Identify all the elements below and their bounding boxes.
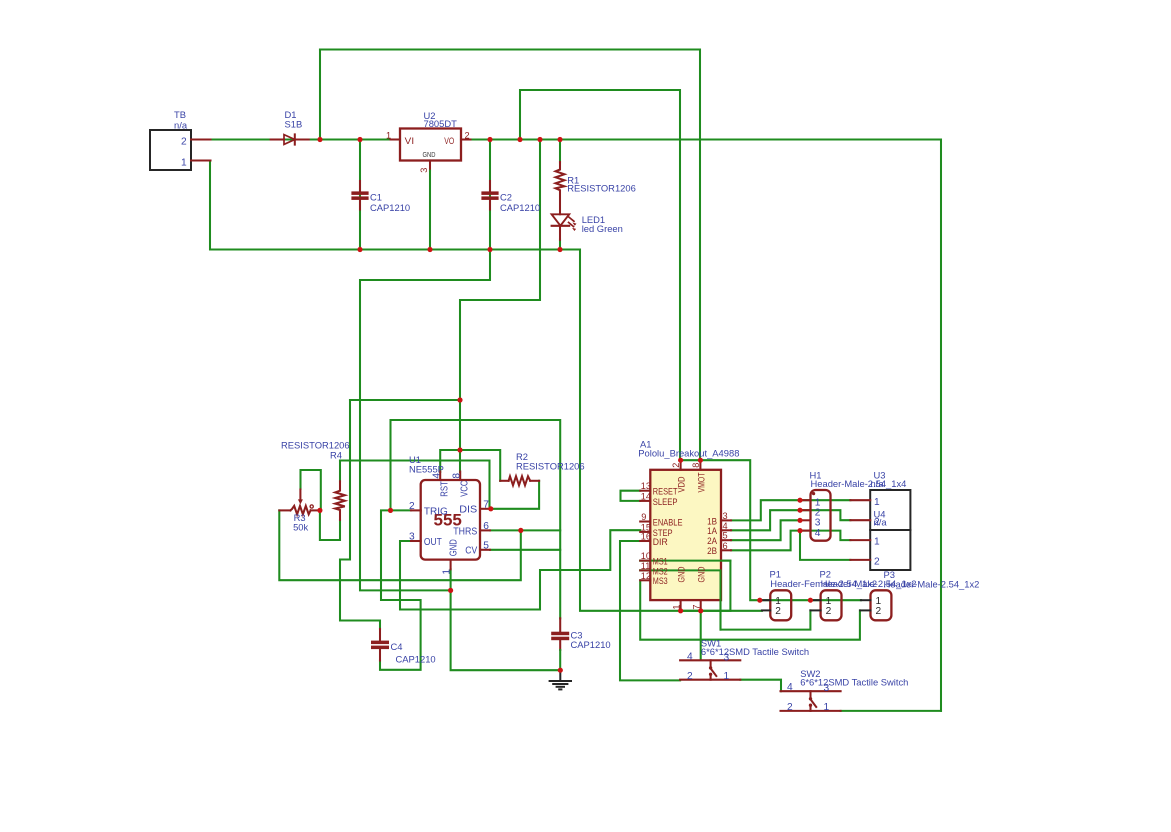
label U2 value 7805DT xyxy=(424,118,458,129)
label R2 name xyxy=(516,451,528,462)
svg-text:4: 4 xyxy=(787,682,793,693)
svg-text:GND: GND xyxy=(677,566,687,582)
U3 pin stubs xyxy=(850,500,870,520)
svg-text:2: 2 xyxy=(874,557,880,568)
P3 pin numbers xyxy=(876,596,882,617)
svg-text:3: 3 xyxy=(419,168,429,173)
trimmer potentiometer R3 xyxy=(279,490,320,515)
wire 555 GND pin to ground symbol xyxy=(451,569,561,670)
svg-text:n/a: n/a xyxy=(874,516,888,527)
header U3 xyxy=(870,490,910,530)
svg-text:9: 9 xyxy=(641,512,646,522)
svg-text:2B: 2B xyxy=(707,546,717,556)
svg-text:S1B: S1B xyxy=(285,118,303,129)
A1 left pin stubs xyxy=(640,491,650,581)
U1 pin name RST xyxy=(440,481,451,497)
label LED1 name xyxy=(582,214,605,225)
A1 pin name ENABLE xyxy=(653,517,683,527)
voltage regulator U2 7805DT xyxy=(400,129,461,161)
svg-text:C4: C4 xyxy=(391,641,403,652)
ground symbol xyxy=(550,670,571,689)
svg-text:2: 2 xyxy=(787,702,793,713)
label SW1 value 6*6*12SMD Tactile Switch xyxy=(701,646,809,657)
svg-text:14: 14 xyxy=(641,491,651,501)
svg-text:6: 6 xyxy=(483,521,489,532)
label C1 value CAP1210 xyxy=(370,202,410,213)
wire net +5V upper loop to VDD xyxy=(520,90,680,460)
wire U2 pin3 to ground rail xyxy=(429,171,431,250)
junction dots 555 region xyxy=(317,397,563,672)
svg-text:RST: RST xyxy=(440,481,451,497)
wire C4 top branch xyxy=(340,400,380,629)
svg-text:1B: 1B xyxy=(707,516,717,526)
label C2 value CAP1210 xyxy=(500,202,540,213)
header P3 Header-Male-2.54_1x2 xyxy=(871,590,892,620)
wire OUT to STEP xyxy=(400,530,640,609)
label C2 name xyxy=(500,192,512,203)
LED LED1 xyxy=(552,214,577,240)
label TB value n/a xyxy=(174,119,188,130)
svg-text:13: 13 xyxy=(641,481,651,491)
svg-text:MS3: MS3 xyxy=(653,576,668,586)
label P2 value Header-Male-2.54_1x2 xyxy=(821,578,917,589)
junction dots A1 xyxy=(678,458,703,614)
label R4 name xyxy=(330,450,342,461)
svg-text:THRS: THRS xyxy=(453,526,477,537)
svg-text:MS1: MS1 xyxy=(653,557,668,567)
svg-text:RESISTOR1206: RESISTOR1206 xyxy=(516,460,585,471)
P3 pin stubs xyxy=(860,600,870,610)
wire RESET SLEEP loop xyxy=(621,491,641,501)
label A1 name xyxy=(640,439,651,450)
H1 pin stubs xyxy=(800,500,811,530)
svg-text:ENABLE: ENABLE xyxy=(653,517,683,527)
svg-text:2: 2 xyxy=(775,606,781,617)
label R1 value RESISTOR1206 xyxy=(567,183,636,194)
capacitor C4 xyxy=(371,629,389,661)
stepper driver module A1 Pololu_Breakout_A4988 xyxy=(650,470,721,600)
resistor R4 xyxy=(335,481,345,520)
svg-text:11: 11 xyxy=(641,561,651,571)
U1 pin name OUT xyxy=(424,537,442,548)
wire 1A to H1-2 and U3-2 xyxy=(731,510,850,530)
svg-text:6: 6 xyxy=(723,541,728,551)
svg-text:2: 2 xyxy=(876,606,882,617)
svg-text:2: 2 xyxy=(465,131,470,141)
svg-text:GND: GND xyxy=(423,152,436,159)
label U3 value n/a xyxy=(871,478,885,489)
A1 pin name 1A xyxy=(707,526,718,536)
label U4 value n/a xyxy=(874,516,888,527)
A1 pin name MS1 xyxy=(653,557,668,567)
wire 1B to H1-1 and U3-1 xyxy=(731,500,850,520)
A1 pin name 1B xyxy=(707,516,717,526)
label R4 RESISTOR1206 xyxy=(281,440,350,451)
svg-text:RESISTOR1206: RESISTOR1206 xyxy=(567,183,636,194)
A1 right pin stubs xyxy=(721,520,731,550)
label A1 value Pololu_Breakout_A4988 xyxy=(638,447,739,458)
svg-text:RESET: RESET xyxy=(653,487,678,497)
svg-text:VCC: VCC xyxy=(460,481,471,497)
A1 pin name VMOT xyxy=(697,472,707,492)
capacitor C3 xyxy=(551,618,569,670)
svg-text:1: 1 xyxy=(386,131,391,141)
wire RST to VCC tie xyxy=(440,450,500,481)
resistor R2 xyxy=(500,476,539,485)
svg-text:2: 2 xyxy=(687,671,693,682)
svg-text:GND: GND xyxy=(449,539,460,556)
wire 2A to H1-3 xyxy=(731,520,800,540)
label H1 name xyxy=(810,470,822,481)
svg-text:16: 16 xyxy=(641,532,651,542)
wire R2 to DIS xyxy=(491,481,539,509)
svg-text:CAP1210: CAP1210 xyxy=(370,202,410,213)
P1 pin stubs xyxy=(760,600,770,610)
A1 pin numbers bottom xyxy=(671,604,701,609)
wire R3 right to R4 bottom xyxy=(320,510,340,540)
svg-text:6*6*12SMD Tactile Switch: 6*6*12SMD Tactile Switch xyxy=(701,646,809,657)
A1 pin numbers top xyxy=(671,463,701,468)
svg-text:CV: CV xyxy=(465,546,477,557)
svg-text:50k: 50k xyxy=(293,522,308,533)
svg-text:Header-Male-2.54_1x4: Header-Male-2.54_1x4 xyxy=(811,478,907,489)
capacitor C2 xyxy=(481,181,498,210)
svg-text:led Green: led Green xyxy=(582,223,623,234)
A1 pin name RESET xyxy=(653,487,678,497)
label U4 name xyxy=(874,509,886,520)
U1 pin numbers xyxy=(409,473,489,575)
svg-text:4: 4 xyxy=(723,521,728,531)
P2 pin numbers xyxy=(826,596,832,617)
wire MS2 to P2 pin2 xyxy=(640,570,810,629)
svg-text:5: 5 xyxy=(483,541,489,552)
svg-text:n/a: n/a xyxy=(174,119,188,130)
svg-text:4: 4 xyxy=(687,651,693,662)
label SW2 value 6*6*12SMD Tactile Switch xyxy=(800,677,908,688)
P1 pin numbers xyxy=(775,596,781,617)
U2 pin 2 stub xyxy=(461,138,471,140)
U3 pin numbers xyxy=(874,497,880,528)
junction dots P1 P2 xyxy=(757,598,813,603)
svg-text:GND: GND xyxy=(697,566,707,582)
A1 pin numbers right xyxy=(723,511,728,551)
junction dots ground rail xyxy=(357,247,562,252)
U4 pin stubs xyxy=(850,540,870,560)
timer U1 NE555P xyxy=(421,480,480,560)
wire A4988 gnd rail xyxy=(640,561,730,611)
wire TRIG to THRS loop xyxy=(391,420,561,618)
svg-text:TB: TB xyxy=(174,109,186,120)
U1 pin name VCC xyxy=(460,481,471,497)
svg-text:CAP1210: CAP1210 xyxy=(500,202,540,213)
svg-text:2: 2 xyxy=(826,606,832,617)
TB pin 1 stub xyxy=(191,159,211,161)
wire C1 column xyxy=(359,140,361,250)
svg-text:1: 1 xyxy=(442,569,453,575)
U1 pin name CV xyxy=(465,546,477,557)
label TB name xyxy=(174,109,186,120)
svg-text:CAP1210: CAP1210 xyxy=(571,639,611,650)
label P3 value Header-Male-2.54_1x2 xyxy=(884,579,980,590)
svg-text:CAP1210: CAP1210 xyxy=(396,653,436,664)
H1 pin numbers xyxy=(815,498,821,539)
A1 pin name STEP xyxy=(653,528,673,538)
wire TRIG left branch to C4 bottom xyxy=(380,510,421,669)
label U1 name xyxy=(409,454,421,465)
svg-text:R4: R4 xyxy=(330,450,342,461)
U1 pin name DIS xyxy=(459,505,477,516)
svg-text:1: 1 xyxy=(874,537,880,548)
wire rail to VCC/RST column xyxy=(460,140,540,473)
svg-text:DIR: DIR xyxy=(653,537,668,547)
label R3 name xyxy=(294,512,306,523)
svg-text:2: 2 xyxy=(409,501,415,512)
label D1 name xyxy=(285,109,297,120)
wire gnd to SW1 common xyxy=(700,611,702,660)
resistor R1 xyxy=(556,162,565,214)
header P2 Header-Male-2.54_1x2 xyxy=(821,590,842,620)
label R1 name xyxy=(567,174,579,185)
svg-text:VO: VO xyxy=(444,136,454,146)
svg-text:1: 1 xyxy=(724,671,730,682)
svg-text:1A: 1A xyxy=(707,526,718,536)
capacitor C1 xyxy=(351,181,368,210)
A1 pin name VDD xyxy=(677,476,687,492)
A1 pin name GND7 xyxy=(697,566,707,582)
svg-text:VI: VI xyxy=(405,136,414,146)
header P1 Header-Female-2.54_1x2 xyxy=(770,590,791,620)
wire R3 wiper tie xyxy=(301,470,321,510)
label C4 name xyxy=(391,641,403,652)
label P2 name xyxy=(820,569,831,580)
tactile switch SW2 xyxy=(781,691,841,711)
svg-text:5: 5 xyxy=(723,531,728,541)
svg-text:C2: C2 xyxy=(500,192,512,203)
label LED1 value led Green xyxy=(582,223,623,234)
wire R4 top to DIS xyxy=(340,461,490,509)
label C3 value CAP1210 xyxy=(571,639,611,650)
wire VDD VMOT to P1 column xyxy=(681,460,861,600)
terminal block TB xyxy=(150,130,191,170)
TB pin 2 stub xyxy=(191,138,211,140)
label U1 value NE555P xyxy=(409,463,444,474)
label R3 value 50k xyxy=(293,522,308,533)
label P3 name xyxy=(884,569,895,580)
svg-text:1: 1 xyxy=(874,497,880,508)
A1 pin name MS2 xyxy=(653,566,668,576)
wire SW1 to SW2 link xyxy=(740,680,781,692)
A1 pin name 2A xyxy=(707,536,718,546)
wire THRS junction down to R3 wire xyxy=(279,510,521,580)
label U2 name xyxy=(424,110,436,121)
svg-text:1: 1 xyxy=(824,702,830,713)
U4 pin numbers xyxy=(874,537,880,568)
SW1 pin numbers xyxy=(687,651,730,682)
U1 pin name GND xyxy=(449,539,460,556)
wire DIR to SW1 xyxy=(620,541,680,680)
P2 pin stubs xyxy=(810,600,820,610)
U1 pin name THRS xyxy=(453,526,477,537)
label SW2 name xyxy=(800,668,820,679)
svg-text:3: 3 xyxy=(723,511,728,521)
wire H1-4 to U4-1 xyxy=(800,531,850,541)
A1 bottom pin stubs xyxy=(681,600,701,611)
svg-text:2: 2 xyxy=(671,463,681,468)
svg-text:2: 2 xyxy=(181,137,187,148)
A1 pin name MS3 xyxy=(653,576,668,586)
A1 pin numbers left xyxy=(641,481,651,581)
svg-text:MS2: MS2 xyxy=(653,566,668,576)
U1 pin name TRIG xyxy=(424,506,448,517)
wire SW2 to rail riser xyxy=(841,710,941,712)
label P1 value Header-Female-2.54_1x2 xyxy=(770,578,877,589)
wire H1-4 to U4-2 xyxy=(800,531,850,560)
wire net VIN top loop to VMOT xyxy=(320,50,700,461)
svg-text:n/a: n/a xyxy=(871,478,885,489)
header U4 xyxy=(870,530,910,570)
svg-text:8: 8 xyxy=(691,463,701,468)
A1 pin name DIR xyxy=(653,537,668,547)
svg-text:TRIG: TRIG xyxy=(424,506,448,517)
svg-text:NE555P: NE555P xyxy=(409,463,444,474)
svg-text:4: 4 xyxy=(815,528,821,539)
wire MS1 crossing over A1 xyxy=(640,560,730,562)
label C1 name xyxy=(370,192,382,203)
junction dots main rail xyxy=(317,137,562,142)
svg-text:7805DT: 7805DT xyxy=(424,118,458,129)
svg-text:8: 8 xyxy=(452,473,463,479)
A1 pin name SLEEP xyxy=(653,497,678,507)
wire CV stub to column xyxy=(490,549,560,551)
wire THRS stub to column xyxy=(490,529,560,531)
A1 pin name GND1 xyxy=(677,566,687,582)
wire C2 column xyxy=(489,140,491,250)
U2 pin 3 stub xyxy=(429,161,431,171)
svg-text:VMOT: VMOT xyxy=(697,472,707,492)
A1 pin name 2B xyxy=(707,546,717,556)
U2 pin numbers xyxy=(386,131,470,173)
header H1 Header-Male-2.54_1x4 xyxy=(811,490,831,541)
svg-text:Pololu_Breakout_A4988: Pololu_Breakout_A4988 xyxy=(638,447,739,458)
wire C4 top tie to VCC node xyxy=(350,399,460,401)
svg-text:VDD: VDD xyxy=(677,476,687,492)
wire MS2 crossing over A1 xyxy=(640,570,720,629)
diode D1 xyxy=(271,134,309,144)
label C3 name xyxy=(571,630,583,641)
svg-text:Header-Male-2.54_1x2: Header-Male-2.54_1x2 xyxy=(884,579,980,590)
wire TB pin1 to ground rail xyxy=(210,161,762,611)
wire main rail TB to right edge xyxy=(210,50,941,711)
tactile switch SW1 xyxy=(680,660,740,679)
svg-text:2A: 2A xyxy=(707,536,718,546)
svg-text:1: 1 xyxy=(181,158,187,169)
label U3 name xyxy=(874,470,886,481)
label R2 value RESISTOR1206 xyxy=(516,460,585,471)
label P1 name xyxy=(770,569,781,580)
svg-text:C1: C1 xyxy=(370,192,382,203)
svg-text:OUT: OUT xyxy=(424,537,442,548)
wire C2 gnd jog to 555 gnd column xyxy=(360,250,490,591)
wire 2B to H1-4 xyxy=(731,531,800,551)
label H1 value Header-Male-2.54_1x4 xyxy=(811,478,907,489)
label SW1 name xyxy=(701,637,721,648)
A1 top pin stubs xyxy=(681,460,701,470)
SW2 pin numbers xyxy=(787,682,830,713)
svg-text:6*6*12SMD Tactile Switch: 6*6*12SMD Tactile Switch xyxy=(800,677,908,688)
label D1 value S1B xyxy=(285,118,303,129)
svg-text:SLEEP: SLEEP xyxy=(653,497,678,507)
wire R1 LED column xyxy=(559,140,561,250)
wire MS3 to P3 pin2 xyxy=(640,580,860,639)
svg-text:DIS: DIS xyxy=(459,505,477,516)
U1 pin stubs xyxy=(411,472,491,570)
TB pin numbers xyxy=(181,137,187,169)
label C4 value CAP1210 xyxy=(396,653,436,664)
svg-text:3: 3 xyxy=(409,532,415,543)
U2 pin 1 stub xyxy=(391,138,401,140)
junction dots H1 pins xyxy=(797,498,802,534)
svg-text:10: 10 xyxy=(641,551,651,561)
svg-text:12: 12 xyxy=(641,571,651,581)
